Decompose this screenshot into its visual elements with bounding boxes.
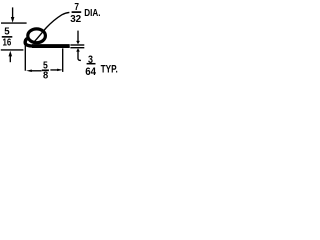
svg-text:64: 64 [85,66,97,78]
svg-text:16: 16 [3,36,12,48]
svg-text:TYP.: TYP. [101,64,118,76]
svg-text:DIA.: DIA. [84,7,100,19]
svg-text:8: 8 [43,70,48,82]
svg-text:7: 7 [74,1,79,13]
svg-text:32: 32 [70,13,81,25]
